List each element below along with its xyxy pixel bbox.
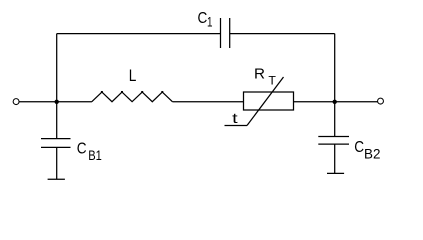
wire right junction down to CB2 xyxy=(334,102,336,137)
capacitor CB1 xyxy=(41,139,71,148)
svg-text:B1: B1 xyxy=(88,148,102,163)
terminal bar bottom left xyxy=(48,178,65,180)
svg-text:C: C xyxy=(77,141,87,158)
wire left terminal to inductor xyxy=(19,101,92,103)
svg-text:t: t xyxy=(232,110,238,126)
wire right junction to terminal xyxy=(335,101,378,103)
terminal left xyxy=(13,99,19,105)
wire left junction down to CB1 xyxy=(56,102,58,139)
svg-text:T: T xyxy=(268,75,276,88)
svg-text:B2: B2 xyxy=(364,147,380,162)
svg-text:L: L xyxy=(129,66,137,85)
svg-text:R: R xyxy=(254,66,265,83)
wire top rail left segment xyxy=(57,33,221,35)
wire left riser xyxy=(56,34,58,102)
svg-text:C: C xyxy=(198,10,208,27)
node left junction xyxy=(55,100,59,104)
thermistor RT diagonal xyxy=(247,77,284,126)
label C1 xyxy=(198,10,213,30)
thermistor RT foot xyxy=(225,125,248,127)
capacitor C1 xyxy=(221,18,230,48)
label CB2 xyxy=(354,139,380,162)
capacitor CB2 xyxy=(318,137,349,145)
terminal bar bottom right xyxy=(327,172,344,174)
wire top rail right segment xyxy=(230,33,335,35)
wire inductor to thermistor xyxy=(172,101,243,103)
node right junction xyxy=(333,100,337,104)
inductor L vertex dots xyxy=(101,91,163,93)
wire thermistor to right junction xyxy=(294,101,335,103)
svg-text:1: 1 xyxy=(207,15,213,30)
thermistor RT body xyxy=(244,92,294,110)
label CB1 xyxy=(77,141,102,164)
terminal right xyxy=(378,98,384,104)
inductor L xyxy=(92,92,173,102)
wire CB2 lower lead xyxy=(334,144,336,173)
svg-text:C: C xyxy=(354,139,364,156)
label RT xyxy=(254,66,276,88)
wire right riser xyxy=(334,34,336,102)
wire CB1 lower lead xyxy=(56,147,58,179)
